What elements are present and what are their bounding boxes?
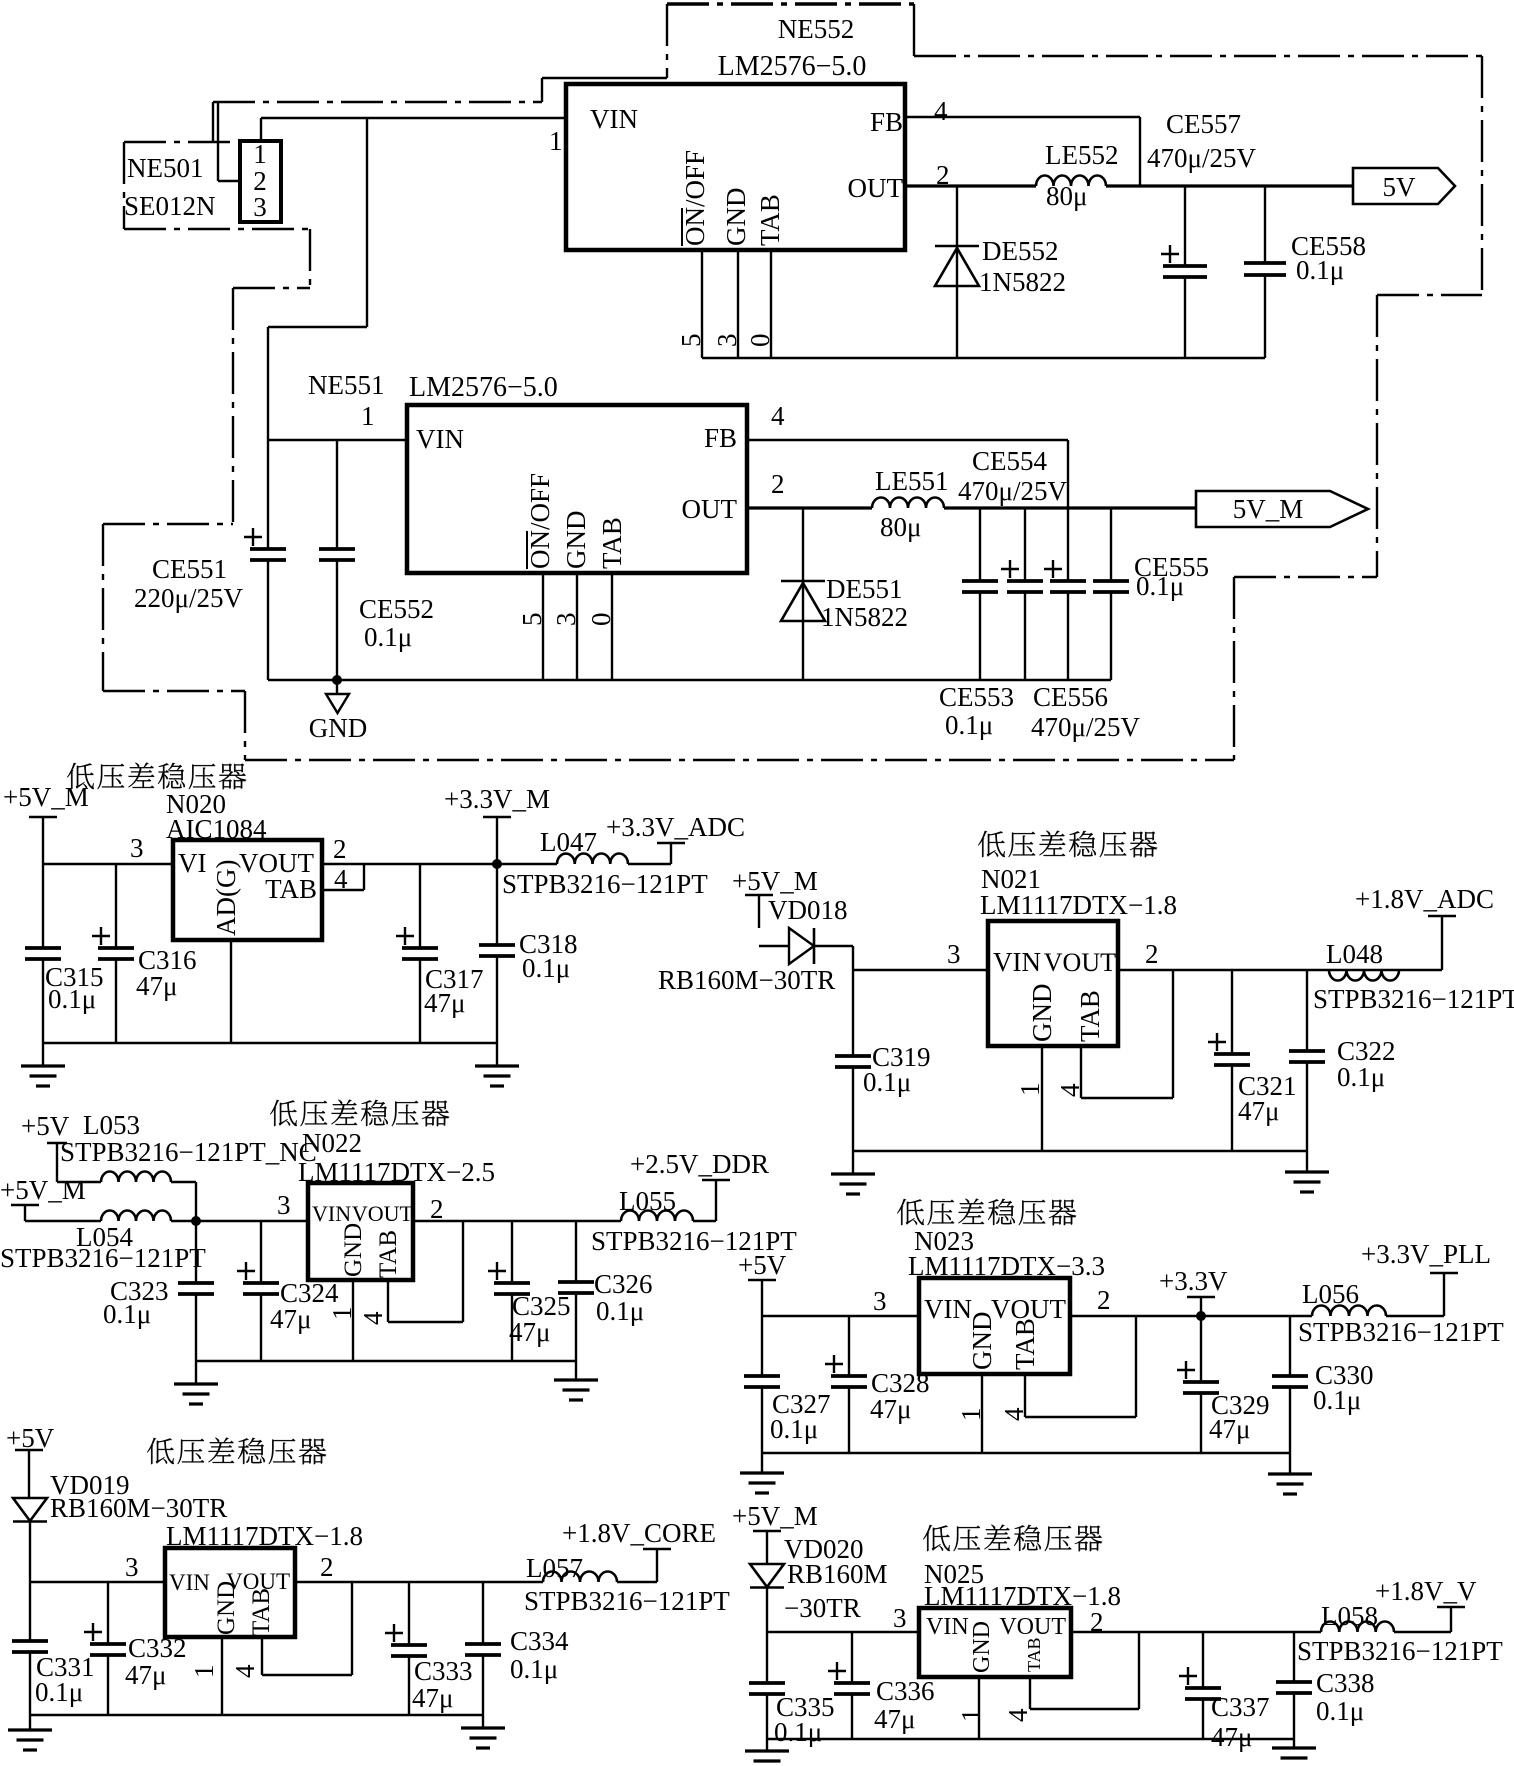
power net +5V [738,1250,787,1316]
svg-text:80μ: 80μ [880,512,921,542]
capacitor C337 47u (electrolytic) [1179,1632,1221,1739]
wire TAB loop [262,1582,352,1675]
capacitor C333 47u (electrolytic) [385,1582,427,1715]
junction [492,859,502,869]
svg-text:+1.8V_V: +1.8V_V [1375,1576,1477,1606]
wire [42,1043,44,1066]
svg-text:RB160M−30TR: RB160M−30TR [658,965,835,995]
svg-text:VI: VI [178,848,207,878]
svg-text:OUT: OUT [848,173,904,203]
svg-text:1: 1 [361,401,375,431]
svg-text:+5V_M: +5V_M [0,1175,86,1205]
svg-text:CE553: CE553 [939,682,1014,712]
svg-text:+2.5V_DDR: +2.5V_DDR [630,1149,769,1179]
svg-text:TAB: TAB [1075,990,1105,1042]
capacitor CE555 0.1u [1093,508,1129,680]
capacitor C336 47u (electrolytic) [828,1632,870,1739]
capacitor C330 0.1u [1272,1316,1308,1453]
svg-text:FB: FB [870,107,903,137]
svg-text:47μ: 47μ [1209,1414,1250,1444]
sheet boundary dash-dot [666,4,668,78]
svg-text:STPB3216−121PT: STPB3216−121PT [1298,1317,1504,1347]
svg-text:0.1μ: 0.1μ [1296,255,1344,285]
svg-text:+3.3V: +3.3V [1159,1266,1228,1296]
svg-text:2: 2 [771,469,785,499]
wire [1394,1631,1451,1633]
inductor L057 [543,1572,617,1583]
IC N024 LM1117DTX-1.8 [165,1521,363,1637]
svg-text:3: 3 [125,1552,139,1582]
IC NE552 LM2576-5.0 [566,14,905,250]
capacitor CE553 0.1u [962,508,998,680]
label low-dropout regulator [923,1525,1102,1552]
capacitor C338 0.1u [1276,1632,1312,1739]
svg-text:1: 1 [327,1307,357,1321]
capacitor CE552 0.1u [319,440,355,680]
svg-text:TAB: TAB [248,1588,275,1636]
sheet boundary dash-dot [1377,294,1482,296]
wire [1289,1453,1291,1474]
svg-text:0.1μ: 0.1μ [770,1414,818,1444]
ground [1285,1172,1329,1192]
svg-text:1N5822: 1N5822 [979,267,1066,297]
wire [766,1739,768,1751]
sheet boundary dash-dot [103,523,233,525]
pin 1 stub [978,1677,980,1739]
wire TAB loop [388,1221,463,1322]
sheet boundary dash-dot right [1481,56,1483,295]
wire [575,1361,577,1380]
ground bus NE552 [702,357,1265,359]
junction [191,1216,201,1226]
inductor L047 [557,854,628,865]
svg-text:1: 1 [956,1408,986,1422]
capacitor C324 47u (electrolytic) [237,1221,279,1361]
svg-text:−30TR: −30TR [784,1593,861,1623]
wire [542,77,667,79]
sheet boundary dash-dot [1376,295,1378,577]
wire [171,1182,196,1221]
svg-text:ON/OFF: ON/OFF [525,473,555,569]
capacitor C327 0.1u [744,1316,780,1453]
ground [1268,1474,1312,1494]
svg-text:VIN: VIN [590,104,638,134]
wire VOUT N024 [295,1581,543,1583]
svg-text:3: 3 [712,334,742,348]
svg-text:C337: C337 [1211,1692,1270,1722]
svg-text:1: 1 [549,126,563,156]
capacitor C331 0.1u [12,1582,48,1715]
diode VD020 RB160M-30TR [750,1564,784,1588]
pins 5 3 0 stubs [543,573,612,680]
sheet boundary dash-dot [1234,576,1377,578]
svg-text:C326: C326 [594,1269,653,1299]
svg-text:CE556: CE556 [1033,682,1108,712]
svg-text:+5V: +5V [738,1250,787,1280]
svg-text:VIN: VIN [993,947,1041,977]
svg-text:2: 2 [320,1552,334,1582]
pin 1 stub [1041,1046,1043,1151]
wire VOUT [322,863,557,865]
ground [554,1380,598,1400]
svg-text:DE551: DE551 [826,574,903,604]
svg-text:L048: L048 [1326,939,1383,969]
wire [617,1581,657,1583]
svg-text:0: 0 [586,613,616,627]
power net +5V_M [0,1175,86,1221]
wire [482,1715,484,1728]
svg-text:LE551: LE551 [875,466,949,496]
svg-text:220μ/25V: 220μ/25V [134,583,243,613]
inductor L054 [101,1211,171,1222]
capacitor C316 47u (electrolytic) [92,864,134,1043]
svg-text:3: 3 [277,1190,291,1220]
svg-text:4: 4 [358,1311,388,1325]
svg-text:+1.8V_ADC: +1.8V_ADC [1355,884,1494,914]
label low-dropout regulator [270,1100,449,1127]
svg-text:3: 3 [253,192,267,222]
svg-text:47μ: 47μ [270,1304,311,1334]
svg-text:L055: L055 [619,1186,676,1216]
ground [831,1174,875,1194]
svg-text:C333: C333 [414,1656,473,1686]
ground bus N021 [853,1150,1307,1152]
junction [1196,1311,1206,1321]
svg-text:TAB: TAB [1010,1318,1040,1370]
wire OUT NE551 [747,506,872,509]
svg-text:GND: GND [1027,984,1057,1043]
svg-text:47μ: 47μ [136,971,177,1001]
sheet boundary dash-dot right top [914,55,1482,57]
wire L053 branch [57,1181,101,1183]
wire VOUT N022 [413,1220,621,1222]
wire [766,1585,768,1632]
inductor LE552 [1036,176,1106,186]
svg-text:3: 3 [947,939,961,969]
capacitor C315 0.1u [25,864,61,1043]
svg-text:SE012N: SE012N [124,191,216,221]
wire pin1 up [260,118,262,141]
IC N022 LM1117DTX-2.5 [298,1128,495,1280]
ground bus NE551 [268,679,1111,681]
ground [174,1384,218,1404]
svg-text:RB160M−30TR: RB160M−30TR [50,1493,227,1523]
wire 5V_M [944,506,1196,509]
capacitor C334 0.1u [465,1582,501,1715]
label low-dropout regulator [67,763,246,790]
svg-text:0.1μ: 0.1μ [48,984,96,1014]
wire [1386,1315,1444,1317]
svg-text:+1.8V_CORE: +1.8V_CORE [562,1518,716,1548]
svg-text:4: 4 [999,1407,1029,1421]
IC N021 LM1117DTX-1.8 [980,864,1177,1046]
connector NE501 dash-dot outline [124,142,310,288]
power net +3.3V_M [444,784,550,864]
svg-text:STPB3216−121PT: STPB3216−121PT [1313,984,1514,1014]
capacitor C322 0.1u [1289,970,1325,1151]
svg-text:80μ: 80μ [1046,181,1087,211]
svg-text:L047: L047 [540,827,597,857]
wire VOUT N021 [1118,969,1329,971]
capacitor CE551 220u/25V (electrolytic) [244,440,286,680]
svg-text:VIN: VIN [169,1570,210,1595]
capacitor CE554 470u/25V (electrolytic) [1001,508,1043,680]
svg-text:CE551: CE551 [152,554,227,584]
svg-text:+5V_M: +5V_M [732,866,818,896]
svg-text:470μ/25V: 470μ/25V [958,476,1067,506]
svg-text:3: 3 [873,1286,887,1316]
wire [761,1453,763,1473]
capacitor C329 47u (electrolytic) [1177,1316,1219,1453]
svg-text:VOUT: VOUT [999,1614,1066,1640]
power net +3.3V_PLL [1361,1239,1491,1316]
svg-text:VIN: VIN [312,1201,351,1226]
svg-text:NE552: NE552 [778,14,855,44]
capacitor C317 47u (electrolytic) [396,864,438,1043]
sheet boundary dash-dot long bottom [245,759,1234,761]
svg-text:0.1μ: 0.1μ [1337,1062,1385,1092]
pin 1 stub [221,1637,223,1715]
capacitor C332 47u (electrolytic) [84,1582,126,1715]
wire FB NE551 [747,440,1068,508]
wire VIN N025 [767,1631,919,1633]
capacitor C325 47u (electrolytic) [488,1221,530,1361]
wire VIN net top [261,117,566,119]
ground bus N023 [762,1452,1290,1454]
ground bus N024 [30,1714,483,1716]
wire pin2 [218,103,240,181]
svg-text:VIN: VIN [416,424,464,454]
svg-text:5: 5 [676,334,706,348]
svg-text:GND: GND [967,1312,997,1371]
svg-text:ON/OFF: ON/OFF [680,150,710,246]
svg-text:OUT: OUT [682,494,738,524]
svg-text:+5V: +5V [6,1423,55,1453]
svg-text:1: 1 [1015,1083,1045,1097]
svg-text:AIC1084: AIC1084 [166,814,267,844]
svg-text:+3.3V_ADC: +3.3V_ADC [606,812,745,842]
sheet boundary dash-dot [102,524,104,691]
wire tee to NE551 [268,118,367,440]
svg-text:5: 5 [517,613,547,627]
svg-text:VOUT: VOUT [1044,948,1116,977]
svg-text:VIN: VIN [926,1614,969,1640]
svg-text:47μ: 47μ [412,1683,453,1713]
wire VOUT N023 [1070,1315,1312,1317]
svg-text:5V: 5V [1383,172,1417,202]
wire VOUT N025 [1071,1631,1321,1633]
svg-text:2: 2 [1145,939,1159,969]
inductor L058 [1321,1622,1394,1633]
ground bus N020 [43,1042,497,1044]
ground bus N022 [196,1360,576,1362]
svg-text:0.1μ: 0.1μ [522,953,570,983]
diode VD018 RB160M-30TR [759,928,853,964]
ground [740,1473,784,1493]
capacitor C318 0.1u [479,864,515,1043]
svg-text:STPB3216−121PT_NC: STPB3216−121PT_NC [60,1137,317,1167]
capacitor CE557 470u/25V [1163,186,1207,358]
svg-text:GND: GND [561,511,591,570]
svg-text:RB160M: RB160M [787,1559,888,1589]
svg-text:L053: L053 [83,1110,140,1140]
svg-text:5V_M: 5V_M [1233,494,1304,524]
svg-text:C336: C336 [876,1676,935,1706]
svg-text:2: 2 [333,834,347,864]
connector NE501 body [240,141,281,222]
sheet boundary dash-dot [212,102,214,142]
inductor L055 [621,1211,693,1222]
inductor L056 [1312,1306,1386,1317]
label low-dropout regulator [897,1199,1076,1226]
connector NE501 labels [124,153,216,221]
svg-text:0.1μ: 0.1μ [945,710,993,740]
wire VIN N022 [171,1220,308,1222]
wire VIN N024 [30,1581,165,1583]
svg-text:VIN: VIN [924,1294,972,1324]
wire TAB loop [1081,970,1173,1098]
diode VD019 RB160M-30TR [13,1498,47,1522]
power net +3.3V_ADC [606,812,745,864]
svg-text:LM2576−5.0: LM2576−5.0 [718,51,867,82]
svg-text:0.1μ: 0.1μ [364,622,412,652]
pins 5 3 0 stubs [702,250,771,358]
wire VIN N023 [762,1315,919,1317]
wire [852,1151,854,1174]
svg-text:4: 4 [230,1664,260,1678]
svg-text:3: 3 [551,613,581,627]
svg-text:CE557: CE557 [1166,109,1241,139]
svg-text:470μ/25V: 470μ/25V [1147,143,1256,173]
power net +2.5V_DDR [630,1149,769,1221]
capacitor C319 0.1u [835,1056,871,1151]
wire [29,1522,31,1582]
wire [1306,1151,1308,1172]
svg-text:1: 1 [189,1665,219,1679]
wire VIN N021 [853,969,988,971]
sheet boundary dash-dot [232,288,234,524]
IC N025 LM1117DTX-1.8 [919,1559,1121,1677]
power net +1.8V_ADC [1355,884,1494,970]
svg-text:TAB: TAB [1024,1637,1044,1672]
svg-text:0.1μ: 0.1μ [103,1299,151,1329]
svg-text:L056: L056 [1302,1279,1359,1309]
svg-text:+3.3V_M: +3.3V_M [444,784,550,814]
wire [852,946,854,1056]
svg-text:L057: L057 [526,1553,583,1583]
sheet boundary dash-dot [103,690,245,692]
sheet boundary dash-dot [213,101,542,103]
svg-text:0.1μ: 0.1μ [863,1067,911,1097]
svg-text:47μ: 47μ [509,1317,550,1347]
svg-text:VD018: VD018 [768,895,848,925]
wire OUT [905,184,1036,187]
svg-text:LM1117DTX−3.3: LM1117DTX−3.3 [908,1251,1105,1281]
inductor LE551 [872,498,944,508]
wire AD(G) pin stub [230,940,232,1043]
ground [8,1730,52,1750]
wire [195,1361,197,1384]
svg-text:0.1μ: 0.1μ [1316,1696,1364,1726]
diode DE552 1N5822 [935,186,979,358]
sheet boundary dash-dot [244,691,246,760]
svg-text:0.1μ: 0.1μ [596,1296,644,1326]
net flag 5V [1353,168,1455,204]
svg-text:FB: FB [704,423,737,453]
svg-text:2: 2 [1097,1285,1111,1315]
svg-text:STPB3216−121PT: STPB3216−121PT [0,1243,206,1273]
capacitor C321 47u (electrolytic) [1208,970,1250,1151]
wire TAB loop [322,864,364,890]
ground [21,1066,65,1086]
svg-text:47μ: 47μ [1238,1096,1279,1126]
ground [475,1066,519,1086]
svg-text:VOUT: VOUT [352,1201,414,1226]
wire [1293,1739,1295,1748]
svg-text:47μ: 47μ [870,1394,911,1424]
pin 1 stub [981,1374,983,1453]
svg-text:GND: GND [213,1581,240,1635]
svg-text:TAB: TAB [265,874,317,904]
wire [628,863,671,865]
svg-text:0.1μ: 0.1μ [774,1717,822,1747]
svg-text:C332: C332 [128,1633,187,1663]
svg-text:TAB: TAB [597,517,627,569]
IC NE551 LM2576-5.0 [308,370,747,573]
svg-text:N022: N022 [302,1128,362,1158]
svg-text:TAB: TAB [755,194,785,246]
sheet boundary dash-dot top [667,2,914,5]
svg-text:47μ: 47μ [424,988,465,1018]
sheet boundary dash-dot [913,4,915,56]
wire to VIN [43,863,173,865]
wire [693,1220,716,1222]
inductor L053 [101,1172,171,1183]
svg-text:4: 4 [1055,1083,1085,1097]
svg-text:3: 3 [130,833,144,863]
svg-text:0.1μ: 0.1μ [1313,1385,1361,1415]
svg-text:AD(G): AD(G) [211,860,241,936]
power net +5V bar [47,1143,67,1182]
svg-text:0.1μ: 0.1μ [510,1654,558,1684]
svg-text:C338: C338 [1316,1668,1375,1698]
svg-text:STPB3216−121PT: STPB3216−121PT [1297,1636,1503,1666]
svg-text:LM1117DTX−2.5: LM1117DTX−2.5 [298,1157,495,1187]
IC N023 LM1117DTX-3.3 [908,1226,1105,1374]
power net +5V_M [732,1501,818,1564]
svg-text:GND: GND [309,713,368,743]
power net +5V [6,1423,55,1498]
inductor L048 [1329,970,1399,981]
wire [496,1043,498,1066]
power net +1.8V_CORE [562,1518,716,1582]
sheet boundary dash-dot [1233,577,1235,760]
svg-text:NE551: NE551 [308,370,385,400]
svg-text:GND: GND [340,1223,367,1277]
svg-text:GND: GND [721,188,751,247]
wire TAB loop [1030,1632,1139,1709]
ground [1272,1748,1316,1766]
capacitor C323 0.1u [178,1221,214,1361]
wire VIN NE551 [268,439,407,441]
svg-text:STPB3216−121PT: STPB3216−121PT [502,869,708,899]
pin 1 stub [352,1280,354,1361]
power net +5V_M [732,866,818,928]
svg-text:STPB3216−121PT: STPB3216−121PT [524,1586,730,1616]
power net +5V_M [3,782,89,864]
diode DE551 1N5822 [781,508,825,680]
svg-text:CE554: CE554 [972,446,1048,476]
